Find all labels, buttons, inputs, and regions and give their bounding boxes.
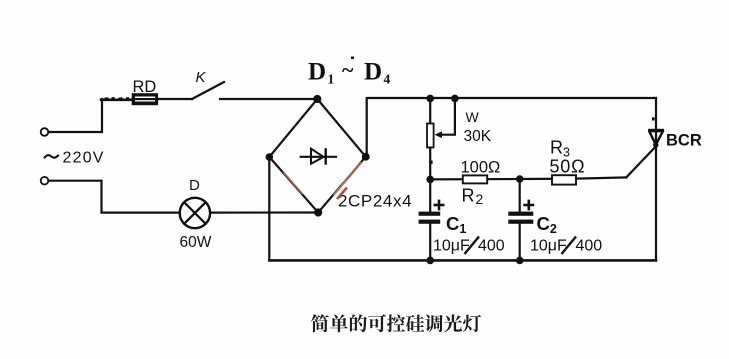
terminal upper AC input (41, 128, 49, 136)
bridge edge bottom-left red artifact (284, 173, 302, 194)
node C1 bottom junction (426, 257, 434, 265)
label red slash artifact over 2CP24x4 (337, 188, 347, 200)
wire pot top lead (429, 98, 431, 123)
wire lower terminal to lamp (49, 181, 180, 213)
resistor R3 (552, 175, 576, 184)
svg-text:220V: 220V (63, 150, 105, 167)
wire lamp to bridge bottom vertex (210, 211, 318, 213)
bridge edge bottom-right red artifact (344, 163, 361, 183)
resistor R2 (463, 175, 487, 183)
potentiometer W wiper (435, 98, 455, 138)
svg-text:K: K (196, 69, 207, 86)
wire bottom rail (269, 259, 656, 262)
node bridge left vertex (266, 153, 274, 161)
bridge edge bottom-left (269, 157, 318, 213)
wire pot bottom lead (429, 148, 431, 180)
speck above tilde (351, 57, 354, 60)
bridge rectifier D1-D4 (266, 95, 370, 217)
wire right rail down (655, 98, 657, 260)
node top rail pot junction (426, 95, 434, 103)
node R2 row left junction (426, 176, 434, 184)
fuse RD (132, 93, 158, 105)
node bridge bottom vertex (314, 208, 322, 216)
wire gate diagonal to BCR (626, 146, 656, 177)
svg-text:30K: 30K (464, 128, 492, 145)
label ~220V tilde (44, 155, 59, 158)
wire bridge right vertex riser to top rail (367, 98, 656, 157)
caption 简单的可控硅调光灯 (311, 314, 481, 332)
svg-text:10μF: 10μF (433, 238, 470, 255)
thyristor BCR (648, 129, 664, 148)
bridge edge top-right (317, 99, 365, 157)
node bridge top vertex (313, 95, 321, 103)
terminal lower AC input (41, 177, 49, 185)
node C2 bottom junction (516, 257, 524, 265)
svg-text:BCR: BCR (666, 132, 702, 150)
node top rail wiper junction (451, 95, 459, 103)
svg-text:60W: 60W (180, 234, 212, 251)
bridge edge bottom-right (360, 157, 366, 164)
svg-text:400: 400 (478, 238, 505, 255)
svg-text:W: W (466, 109, 480, 125)
wire R2 row (430, 177, 626, 179)
node C2 top junction (516, 175, 524, 183)
svg-text:100Ω: 100Ω (461, 159, 501, 177)
potentiometer W body (427, 124, 434, 148)
switch K blade (192, 82, 224, 99)
svg-text:RD: RD (133, 78, 157, 96)
lamp D (180, 198, 210, 228)
speck on right wire (652, 117, 655, 120)
node bridge right vertex (362, 153, 370, 161)
capacitor C1 (419, 179, 444, 260)
svg-text:50Ω: 50Ω (550, 157, 586, 177)
wire switch to bridge top (220, 98, 317, 100)
bridge edge top-left (269, 99, 317, 157)
wire upper terminal to riser (49, 99, 103, 132)
capacitor C2 (508, 179, 533, 260)
speck on pot lower lead (431, 161, 433, 164)
wire fuse to switch (158, 98, 192, 100)
svg-text:10μF: 10μF (530, 238, 567, 255)
wire bridge left vertex down (268, 157, 270, 260)
svg-text:400: 400 (576, 238, 603, 255)
svg-text:D: D (189, 177, 200, 194)
wire riser to fuse (bumpy scan) (101, 99, 133, 102)
svg-text:2CP24x4: 2CP24x4 (338, 192, 412, 211)
diode symbol inside bridge (301, 149, 336, 164)
